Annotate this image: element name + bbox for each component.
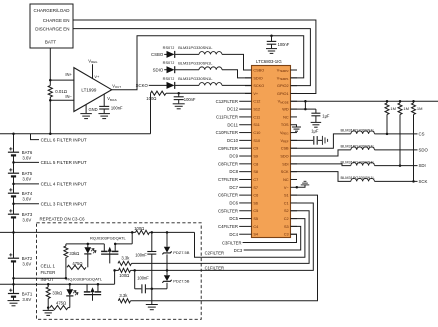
svg-text:C3FILTER: C3FILTER [222, 240, 241, 245]
svg-text:C8FILTER: C8FILTER [218, 161, 238, 166]
battery BAT3 3.6V [8, 209, 33, 222]
svg-text:S10: S10 [253, 139, 260, 143]
svg-text:3.6V: 3.6V [22, 197, 31, 202]
svg-text:RS07J: RS07J [163, 60, 175, 65]
wire CHARGE EN to GPIO1 [73, 20, 316, 93]
svg-text:LTC6803-1IG: LTC6803-1IG [256, 59, 282, 64]
diode RS07J + ferrite bead row SDIO [153, 60, 252, 78]
svg-text:REPEATED ON C3-C6: REPEATED ON C3-C6 [40, 217, 86, 222]
svg-text:DC5: DC5 [229, 216, 238, 221]
svg-text:GPIO1: GPIO1 [277, 92, 289, 96]
wire BATT down [49, 48, 51, 86]
svg-text:VOUT: VOUT [112, 83, 121, 89]
svg-text:SCKO: SCKO [136, 83, 149, 88]
svg-text:RS07J: RS07J [163, 76, 175, 81]
label CELL 1 FILTER INPUT [41, 263, 56, 282]
svg-text:FILTER: FILTER [41, 270, 56, 275]
svg-text:INPUT: INPUT [41, 277, 54, 282]
svg-text:S4: S4 [253, 233, 258, 237]
svg-text:100nF: 100nF [137, 276, 149, 281]
svg-text:C10FILTER: C10FILTER [216, 130, 238, 135]
ferrite bead row SCK to edge [291, 172, 428, 184]
ground at cell1 filter [146, 288, 158, 310]
wire to V+ pin [166, 92, 252, 94]
LED D1 indicator [66, 283, 78, 308]
svg-text:CELL 4 FILTER INPUT: CELL 4 FILTER INPUT [41, 182, 87, 187]
svg-text:C9FILTER: C9FILTER [218, 146, 238, 151]
ground at V- [296, 181, 310, 188]
diode RS07J + ferrite bead row CSBO [151, 45, 251, 70]
svg-text:SCK: SCK [281, 170, 289, 174]
wire shunt to cell6 node [49, 97, 51, 134]
svg-text:DC7: DC7 [229, 185, 238, 190]
node cell4 tap [12, 182, 87, 187]
svg-text:CELL 1: CELL 1 [41, 263, 56, 268]
svg-text:CELL 5 FILTER INPUT: CELL 5 FILTER INPUT [41, 160, 87, 165]
svg-text:3.6V: 3.6V [22, 177, 31, 182]
node IN- tap [49, 99, 74, 102]
svg-text:BLM31PG330SN1L: BLM31PG330SN1L [178, 45, 213, 50]
svg-text:S8: S8 [253, 170, 258, 174]
svg-text:C7: C7 [253, 178, 258, 182]
svg-text:S3: S3 [284, 225, 289, 229]
svg-text:C10: C10 [253, 131, 260, 135]
ferrite bead row SDO to edge [291, 144, 429, 156]
resistor 3.3k cell2 gate [118, 256, 132, 266]
resistor 1M pullup 1 [385, 100, 396, 135]
resistor 3.3k cell1 gate [118, 293, 130, 303]
node cell3 tap [12, 201, 87, 206]
svg-text:SDI: SDI [282, 162, 288, 166]
pin V+ of LT1999 [88, 58, 100, 79]
svg-text:VREG: VREG [280, 131, 289, 136]
svg-text:S6: S6 [253, 201, 258, 205]
svg-text:C6: C6 [253, 194, 258, 198]
svg-text:C2FILTER: C2FILTER [205, 251, 224, 256]
svg-text:SCKO: SCKO [253, 84, 264, 88]
svg-text:SDO: SDO [419, 148, 429, 153]
pin GND of LT1999 [80, 105, 97, 119]
resistor 100Ω V+ feed [146, 91, 166, 101]
zener PDZ7.5B cell1 [152, 270, 190, 288]
svg-text:0.01Ω: 0.01Ω [55, 89, 68, 94]
resistor 33kΩ cell2 [64, 244, 79, 278]
svg-text:100nF: 100nF [111, 105, 123, 110]
svg-text:BLM31PG330SN1L: BLM31PG330SN1L [341, 144, 376, 149]
svg-text:CSBO: CSBO [253, 68, 264, 72]
transistor Q2 RQJ0303PGDQATL [90, 236, 126, 264]
svg-text:BAT4: BAT4 [22, 191, 33, 196]
svg-text:1µF: 1µF [322, 114, 330, 119]
svg-text:C5FILTER: C5FILTER [218, 208, 238, 213]
svg-text:NC: NC [283, 115, 289, 119]
resistor 33kΩ cell1 [46, 283, 62, 308]
node cell6 tap / wire [0, 133, 151, 143]
resistor 100Ω cell2 filter [134, 226, 149, 234]
svg-text:DC6: DC6 [229, 200, 238, 205]
transistor Q1 RQJ0303PGDQATL [66, 277, 102, 301]
svg-text:C12: C12 [253, 100, 260, 104]
svg-text:V+: V+ [94, 74, 100, 79]
zener PDZ7.5B cell2 [162, 231, 189, 272]
svg-text:VREG: VREG [88, 58, 98, 64]
svg-text:DC3: DC3 [234, 248, 243, 253]
wire DISCHARGE EN to GPIO2 [73, 29, 310, 86]
wire C3 wrap (C3FILTER) [222, 234, 296, 245]
svg-text:VBIAS: VBIAS [107, 96, 116, 102]
svg-text:C9: C9 [253, 147, 258, 151]
wire S3 wrap (DC3) [234, 226, 301, 253]
capacitor 100nF cell2 [135, 231, 156, 289]
svg-text:DISCHARGE EN: DISCHARGE EN [35, 26, 69, 31]
wire cell1/cell2 tap [12, 277, 67, 280]
wire C1 wrap (C1FILTER) [135, 203, 314, 271]
wire cell1 rail [0, 269, 116, 285]
svg-text:3.6V: 3.6V [22, 262, 31, 267]
svg-text:DC10: DC10 [227, 138, 239, 143]
svg-text:100Ω: 100Ω [134, 226, 144, 231]
capacitor 100nF V+ bypass [173, 92, 196, 109]
svg-text:100Ω: 100Ω [146, 96, 156, 101]
capacitor 1µF on WD node [311, 109, 330, 127]
svg-text:1M: 1M [403, 106, 409, 111]
svg-text:475Ω: 475Ω [72, 261, 82, 266]
svg-text:C5: C5 [253, 209, 258, 213]
svg-text:IN+: IN+ [65, 72, 72, 77]
IC U1 LTC6803-1IG [252, 59, 291, 238]
ferrite bead row CS to edge [291, 128, 425, 149]
svg-text:RQJ0303PGDQATL: RQJ0303PGDQATL [90, 236, 126, 241]
svg-text:CELL 3 FILTER INPUT: CELL 3 FILTER INPUT [41, 201, 87, 206]
svg-text:C11FILTER: C11FILTER [216, 114, 238, 119]
ground at stack bottom [8, 301, 20, 306]
svg-text:DC8: DC8 [229, 169, 238, 174]
svg-text:WD: WD [282, 108, 289, 112]
resistor 475Ω cell2 [67, 261, 86, 270]
op-amp U2 LT1999 [74, 68, 112, 112]
svg-text:BAT5: BAT5 [22, 171, 33, 176]
svg-text:1M: 1M [390, 106, 396, 111]
svg-text:BLM31PG330SN1L: BLM31PG330SN1L [341, 175, 376, 180]
svg-text:DC12: DC12 [227, 107, 239, 112]
svg-text:SDIO: SDIO [253, 76, 262, 80]
wire VOUT to VTEMP1 [112, 36, 304, 90]
svg-text:100nF: 100nF [184, 97, 196, 102]
svg-text:NC: NC [283, 178, 289, 182]
svg-text:DC11: DC11 [227, 122, 238, 127]
pin VBIAS of LT1999 [104, 94, 116, 106]
wire C2 wrap (C2FILTER) [195, 219, 305, 258]
svg-text:100Ω: 100Ω [119, 273, 129, 278]
svg-text:CHARGE EN: CHARGE EN [43, 18, 70, 23]
wire MOSFET feed riser [115, 231, 133, 244]
svg-text:S1: S1 [284, 194, 289, 198]
svg-text:S9: S9 [253, 154, 258, 158]
svg-text:33kΩ: 33kΩ [69, 251, 79, 256]
svg-text:VTEMP1: VTEMP1 [277, 76, 289, 81]
svg-text:GND: GND [89, 107, 98, 112]
wire S2 wrap (DC2) [132, 211, 310, 264]
svg-text:DC4: DC4 [229, 232, 238, 237]
svg-text:SDIO: SDIO [153, 67, 164, 72]
svg-text:100nF: 100nF [278, 42, 290, 47]
battery BAT1 3.6V [8, 289, 33, 302]
node IN+ tap [49, 79, 74, 82]
svg-text:3.6V: 3.6V [22, 218, 31, 223]
svg-text:C6FILTER: C6FILTER [218, 193, 238, 198]
wire WD tie [291, 100, 316, 110]
capacitor 100nF on VBIAS [98, 105, 123, 118]
svg-text:33kΩ: 33kΩ [52, 291, 62, 296]
resistor 0.01Ω shunt [48, 86, 68, 98]
svg-text:C1FILTER: C1FILTER [205, 266, 224, 271]
resistor 475Ω cell1 [50, 300, 70, 309]
svg-text:DC9: DC9 [229, 154, 238, 159]
svg-text:C3: C3 [284, 233, 289, 237]
svg-text:S5: S5 [253, 217, 258, 221]
svg-text:C4FILTER: C4FILTER [218, 224, 238, 229]
resistor 1M pullup 3 [412, 100, 423, 183]
svg-text:SDI: SDI [419, 163, 426, 168]
resistor 100Ω cell1 filter [115, 268, 136, 278]
svg-text:LT1999: LT1999 [81, 88, 96, 93]
svg-text:VREF: VREF [280, 139, 288, 144]
svg-text:BAT6: BAT6 [22, 150, 33, 155]
svg-text:V+: V+ [253, 92, 259, 96]
svg-text:C11: C11 [253, 115, 260, 119]
svg-text:C4: C4 [253, 225, 258, 229]
svg-text:SCK: SCK [419, 179, 428, 184]
svg-text:BLM31PG330SN1L: BLM31PG330SN1L [341, 159, 376, 164]
svg-text:100nF: 100nF [135, 252, 147, 257]
ground at TOS [292, 125, 301, 131]
svg-text:S12: S12 [253, 108, 260, 112]
svg-text:VMODE: VMODE [278, 100, 289, 105]
svg-text:RS07J: RS07J [163, 45, 175, 50]
node cell5 tap [12, 160, 87, 165]
svg-text:475Ω: 475Ω [56, 300, 66, 305]
svg-text:SDO: SDO [280, 154, 288, 158]
wire cell2 source rail [66, 243, 104, 245]
LED D2 indicator [84, 243, 96, 268]
svg-text:BLM31PG330SN1L: BLM31PG330SN1L [178, 60, 213, 65]
battery BAT4 3.6V [8, 188, 33, 201]
svg-text:GPIO2: GPIO2 [277, 84, 289, 88]
ground at cell1 bottom [43, 306, 54, 315]
capacitor 1µF on VREF [291, 129, 328, 145]
svg-text:CS: CS [419, 132, 425, 137]
svg-text:BLM31PG330SN1L: BLM31PG330SN1L [341, 128, 376, 133]
resistor 1M pullup 2 [398, 100, 409, 167]
svg-text:BLM31PG330SN1L: BLM31PG330SN1L [178, 76, 213, 81]
svg-text:CELL 6 FILTER INPUT: CELL 6 FILTER INPUT [41, 137, 87, 142]
diode RS07J + ferrite bead row SCKO [136, 76, 252, 89]
svg-text:VTEMP2: VTEMP2 [277, 68, 289, 73]
wire cell6 to V+ riser [150, 93, 152, 134]
svg-text:RQJ0303PGDQATL: RQJ0303PGDQATL [66, 277, 102, 282]
svg-text:C12FILTER: C12FILTER [216, 99, 238, 104]
dashed box REPEATED ON C3-C6 [37, 217, 202, 320]
wire S1 wrap (DC1) [131, 195, 318, 301]
capacitor 100nF on VOUT [266, 35, 290, 54]
label IN+ [65, 72, 72, 77]
svg-text:C8: C8 [253, 162, 258, 166]
battery BAT2 3.6V [8, 253, 33, 266]
svg-text:V−: V− [284, 186, 290, 190]
svg-text:TOS: TOS [281, 123, 289, 127]
capacitor 100nF cell1 [135, 270, 152, 293]
wire cell2 rail [0, 231, 195, 234]
svg-text:C2: C2 [284, 217, 289, 221]
svg-text:3.6V: 3.6V [22, 297, 31, 302]
svg-text:PDZ7.5B: PDZ7.5B [173, 250, 190, 255]
svg-text:BAT1: BAT1 [22, 291, 33, 296]
svg-text:3.3k: 3.3k [119, 293, 128, 298]
wire VMODE to right edge [291, 100, 438, 102]
svg-text:BATT: BATT [45, 40, 56, 45]
left C-filter / discharge net labels [216, 99, 245, 237]
svg-text:CSB: CSB [281, 147, 289, 151]
IC pin stubs [245, 70, 297, 234]
charger/load block [30, 4, 73, 48]
svg-text:S7: S7 [253, 186, 258, 190]
svg-text:1M: 1M [417, 106, 423, 111]
svg-text:1µF: 1µF [311, 129, 319, 134]
svg-text:C7FILTER: C7FILTER [218, 177, 238, 182]
battery BAT6 3.6V [8, 147, 33, 160]
svg-text:BAT2: BAT2 [22, 256, 33, 261]
svg-text:BAT3: BAT3 [22, 212, 33, 217]
svg-text:3.3k: 3.3k [121, 256, 130, 261]
battery BAT5 3.6V [8, 168, 33, 181]
svg-text:CHARGER/LOAD: CHARGER/LOAD [33, 8, 70, 13]
svg-text:PDZ7.5B: PDZ7.5B [173, 278, 190, 283]
ferrite bead row SDI to edge [291, 159, 426, 168]
battery stack rail [13, 134, 15, 300]
svg-text:C1: C1 [284, 201, 289, 205]
label IN- [65, 94, 72, 99]
svg-text:S11: S11 [253, 123, 259, 127]
svg-text:S2: S2 [284, 209, 289, 213]
svg-text:CSBO: CSBO [151, 52, 164, 57]
svg-text:3.6V: 3.6V [22, 156, 31, 161]
mosfet rail dots [114, 243, 117, 246]
svg-text:IN−: IN− [65, 94, 72, 99]
